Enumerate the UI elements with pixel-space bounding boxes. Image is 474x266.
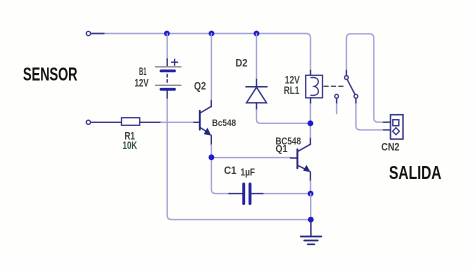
wire pin stub right of top terminal — [91, 33, 104, 35]
transistor Q2 collector pin up — [210, 100, 212, 107]
connector CN2 square pin marker — [393, 120, 399, 126]
svg-text:12V: 12V — [135, 77, 150, 89]
wire terminal to resistor R1 — [91, 121, 122, 123]
relay link dashed — [324, 85, 344, 87]
transistor Q1 emitter pin down — [309, 172, 311, 181]
wire Q1 emitter node to ground node — [310, 194, 312, 220]
wire resistor to Q2 base — [161, 121, 194, 123]
ground — [301, 237, 322, 245]
relay RL1 coil top pin — [310, 71, 312, 76]
diode D2 cathode pin — [256, 80, 258, 87]
wire Q1 emitter to node — [310, 181, 312, 191]
relay RL1 coil symbol — [311, 77, 319, 95]
wire resistor right pin — [140, 121, 161, 123]
resistor R1 — [122, 118, 140, 126]
svg-text:CN2: CN2 — [381, 142, 399, 154]
wire Q2 collector to top rail — [210, 34, 212, 100]
wire C1 right pin — [252, 193, 265, 195]
transistor Q2 emitter arrow — [204, 128, 212, 136]
svg-text:D2: D2 — [236, 57, 248, 69]
wire battery branch vertical + bottom rail to ground junction — [167, 34, 309, 220]
battery B1 plates — [156, 67, 182, 90]
wire C1 to Q1 emitter node — [264, 193, 309, 195]
svg-text:Q1: Q1 — [276, 143, 288, 155]
diode D2 cathode bar — [246, 86, 267, 88]
wire top rail from input terminal to relay coil branch — [91, 34, 311, 71]
connector CN2 body — [391, 115, 404, 139]
node input terminal J2 left — [86, 120, 90, 124]
wire Q1 collector to coil node — [309, 123, 311, 137]
transistor Q1 collector diagonal — [297, 144, 310, 151]
capacitor C1 plates — [244, 184, 250, 204]
wire C1 left pin — [229, 193, 242, 195]
wire D2 branch from top rail — [256, 34, 258, 80]
relay NC stub — [336, 98, 338, 104]
battery plus sign — [172, 59, 178, 65]
wire Q2 emitter down to node — [210, 145, 212, 155]
svg-text:SALIDA: SALIDA — [389, 162, 442, 183]
relay RL1 coil bottom pin — [310, 98, 312, 104]
relay pole contact circle — [345, 76, 349, 80]
svg-text:B1: B1 — [139, 66, 147, 78]
wire NO contact to CN2 pin2 — [356, 104, 384, 130]
transistor Q1 emitter arrow — [303, 165, 310, 172]
transistor Q2 collector diagonal — [200, 106, 212, 113]
wire Q2 base pin — [194, 121, 199, 123]
wire NC stub down — [336, 104, 338, 114]
node junction Q2 emitter — [209, 154, 215, 160]
svg-text:SENSOR: SENSOR — [23, 64, 78, 85]
relay NC contact circle — [335, 94, 339, 98]
svg-text:Bc548: Bc548 — [212, 118, 236, 129]
node junction Q2 collector / top rail — [209, 31, 215, 37]
relay RL1 coil box — [306, 75, 323, 98]
node junction bottom rail — [308, 217, 314, 223]
transistor Q2 base bar — [199, 111, 201, 130]
node junction coil / D2 / Q1 collector — [308, 120, 314, 126]
transistor Q1 base bar — [296, 149, 298, 168]
wire Q1 base pin — [291, 157, 298, 159]
node junction C1 right / Q1 emitter — [308, 191, 314, 197]
wire coil bottom to node — [309, 104, 311, 123]
svg-text:C1: C1 — [224, 165, 237, 177]
wire node down to C1 left — [211, 158, 229, 194]
svg-text:RL1: RL1 — [284, 85, 300, 97]
transistor Q1 collector pin up — [309, 138, 311, 145]
relay NO pin down — [355, 98, 357, 104]
node input terminal J1 top — [86, 31, 90, 35]
relay pole pin — [345, 71, 347, 76]
diode D2 triangle — [247, 87, 267, 103]
connector CN2 diamond pin marker — [393, 128, 400, 135]
diode D2 anode pin — [256, 103, 258, 110]
svg-text:10K: 10K — [123, 140, 138, 152]
node junction battery / top rail — [164, 31, 170, 37]
wire relay pole up over to CN2 pin1 — [346, 34, 383, 122]
node junction D2 / top rail — [254, 31, 260, 37]
battery B1 pins — [166, 59, 168, 98]
connector CN2 pin1 — [384, 121, 391, 123]
transistor Q2 emitter diagonal — [200, 127, 208, 132]
transistor Q1 emitter diagonal — [297, 165, 306, 170]
relay NO contact circle — [354, 94, 358, 98]
svg-text:1µF: 1µF — [241, 167, 256, 179]
connector CN2 pin2 — [384, 129, 391, 131]
svg-text:Q2: Q2 — [194, 81, 206, 93]
wire D2 anode to coil bottom node — [257, 110, 309, 123]
ground stem — [310, 220, 312, 237]
transistor Q2 emitter pin down — [210, 135, 212, 145]
wire node to Q1 base — [211, 157, 290, 159]
relay switch arm — [347, 79, 355, 94]
